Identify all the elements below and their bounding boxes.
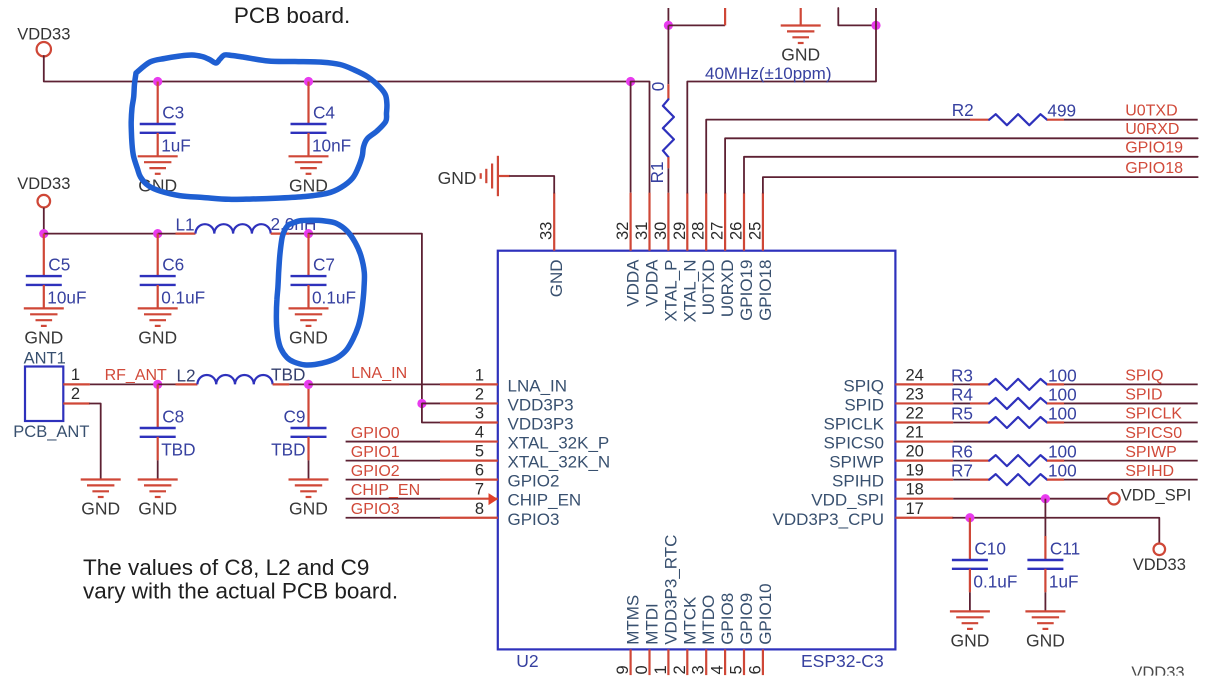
wire crystal top horizontal <box>668 24 725 26</box>
svg-text:6: 6 <box>746 665 764 674</box>
svg-text:25: 25 <box>746 222 764 240</box>
wire net U0RXD from pin 27 <box>725 138 1198 192</box>
wire C7 junction right and down to pin2/pin3 branch (VDD3P3) <box>309 234 422 404</box>
svg-text:TBD: TBD <box>161 440 195 460</box>
svg-text:20: 20 <box>906 443 924 461</box>
pin 1 (LNA_IN) of U2 <box>440 383 498 385</box>
resistor R7 right pin <box>1047 479 1064 481</box>
svg-text:The values of C8, L2 and C9: The values of C8, L2 and C9 <box>83 555 369 580</box>
svg-text:C8: C8 <box>162 407 184 427</box>
wire branch to pin 2 <box>422 402 440 404</box>
wire pin19 to R7 <box>953 479 970 481</box>
svg-text:GND: GND <box>547 260 566 298</box>
pin 18 (VDD_SPI) of U2 <box>895 498 953 500</box>
wire rail2 C6 to L1 <box>158 233 176 235</box>
svg-text:GND: GND <box>81 499 120 519</box>
junction C5 / VDD33 <box>39 229 48 238</box>
svg-text:2: 2 <box>671 665 689 674</box>
resistor R5 body <box>989 417 1047 428</box>
svg-text:R6: R6 <box>951 442 973 462</box>
wire ANT1 pin2 to ground <box>90 404 101 480</box>
wire pin22 to R5 <box>953 422 970 424</box>
svg-text:XTAL_32K_P: XTAL_32K_P <box>508 434 610 453</box>
svg-text:VDDA: VDDA <box>643 259 662 307</box>
svg-text:32: 32 <box>614 222 632 240</box>
junction VDD33 rail to pins 32/31 <box>626 77 635 86</box>
wire pin24 to R3 <box>953 383 970 385</box>
svg-text:0.1uF: 0.1uF <box>312 288 356 308</box>
pin 2 (VDD3P3) of U2 <box>440 402 498 404</box>
svg-text:40MHz(±10ppm): 40MHz(±10ppm) <box>705 64 831 83</box>
svg-text:U0RXD: U0RXD <box>718 260 737 318</box>
wire net U0TXD from pin 28 <box>706 120 970 193</box>
svg-text:33: 33 <box>538 222 556 240</box>
capacitor C6 (C6 0.1uF) <box>157 234 159 277</box>
crop mask bottom (source image cut) <box>0 676 1222 688</box>
ground (sideways) at pin 33 <box>481 156 498 196</box>
svg-text:SPID: SPID <box>1125 387 1162 404</box>
resistor R1 bottom pin <box>667 157 669 168</box>
junction C11 on VDD_SPI <box>1041 494 1050 503</box>
svg-text:U2: U2 <box>516 651 538 671</box>
svg-text:CHIP_EN: CHIP_EN <box>508 491 582 510</box>
pin 33 (GND) of U2 <box>553 193 555 251</box>
junction C3 on VDD33 rail <box>153 77 162 86</box>
svg-text:23: 23 <box>906 385 924 403</box>
svg-text:27: 27 <box>709 222 727 240</box>
svg-text:100: 100 <box>1048 442 1077 462</box>
svg-text:2: 2 <box>475 385 484 403</box>
wire pin 18 to VDD_SPI <box>953 498 1108 500</box>
svg-text:C10: C10 <box>974 539 1006 559</box>
svg-text:R7: R7 <box>951 461 973 481</box>
svg-text:XTAL_P: XTAL_P <box>661 260 680 322</box>
wire rail junction down to pin32 <box>630 82 632 193</box>
svg-text:SPICS0: SPICS0 <box>824 434 884 453</box>
svg-text:VDDA: VDDA <box>624 259 643 307</box>
wire pin20 to R6 <box>953 460 970 462</box>
capacitor C5 (C5 10uF) <box>43 234 45 277</box>
ground GND under C10 <box>950 611 990 629</box>
pin 13 (MTDO) of U2 <box>705 649 707 675</box>
pin 7 (CHIP_EN) of U2 <box>440 498 498 500</box>
inductor L1 body <box>196 224 271 233</box>
wire XTAL_N vertical from top edge <box>875 8 877 25</box>
svg-text:MTDI: MTDI <box>643 603 662 645</box>
inductor L1 left pin <box>176 233 196 235</box>
resistor R3 left pin <box>970 383 989 385</box>
svg-text:R4: R4 <box>951 384 973 404</box>
pin 3 (VDD3P3) of U2 <box>440 421 498 423</box>
svg-text:GPIO18: GPIO18 <box>1125 160 1183 177</box>
wire net SPICS0 (no resistor) <box>953 441 1197 443</box>
svg-text:7: 7 <box>475 481 484 499</box>
resistor R3 right pin <box>1047 383 1064 385</box>
capacitor C11 (C11 1uF) <box>1044 499 1046 536</box>
svg-text:100: 100 <box>1048 461 1077 481</box>
svg-text:C6: C6 <box>162 255 184 275</box>
ground GND under C7 <box>289 308 329 326</box>
junction XTAL_P / R1 <box>664 21 673 30</box>
svg-text:6: 6 <box>475 462 484 480</box>
pin 16 (GPIO10) of U2 <box>762 649 764 675</box>
wire ANT1 pin1 to RF_ANT junction <box>90 383 158 385</box>
svg-text:VDD_SPI: VDD_SPI <box>811 491 884 510</box>
svg-text:PCB board.: PCB board. <box>234 3 350 28</box>
svg-text:R5: R5 <box>951 404 973 424</box>
svg-text:1uF: 1uF <box>1049 572 1079 592</box>
wire R4 to label SPID <box>1064 402 1198 404</box>
ground GND under C8 <box>138 480 178 498</box>
svg-text:C9: C9 <box>284 407 306 427</box>
svg-text:24: 24 <box>906 366 924 384</box>
resistor R3 body <box>989 379 1047 390</box>
svg-text:LNA_IN: LNA_IN <box>508 376 568 395</box>
svg-text:GND: GND <box>289 499 328 519</box>
pin 10 (MTDI) of U2 <box>648 649 650 675</box>
wire net GPIO18 from pin 25 <box>763 177 1198 193</box>
svg-text:9: 9 <box>614 665 632 674</box>
wire VDD33 #2 stub down <box>43 208 45 234</box>
svg-text:0.1uF: 0.1uF <box>973 572 1017 592</box>
svg-text:3: 3 <box>690 665 708 674</box>
svg-text:C11: C11 <box>1050 539 1080 559</box>
ground GND under ANT1 pin2 <box>81 480 121 498</box>
ground GND top crystal <box>781 26 821 44</box>
pin 31 (VDDA) of U2 <box>648 193 650 251</box>
svg-text:VDD33: VDD33 <box>1133 556 1186 574</box>
resistor R5 right pin <box>1047 421 1064 423</box>
pin 11 (VDD3P3_RTC) of U2 <box>667 649 669 675</box>
capacitor C3 (C3 1uF) <box>157 82 159 125</box>
pin 12 (MTCK) of U2 <box>686 649 688 675</box>
ground GND under C3 <box>138 156 178 174</box>
svg-text:4: 4 <box>709 665 727 674</box>
svg-text:0: 0 <box>648 82 668 92</box>
ground GND under C11 <box>1025 611 1065 629</box>
antenna pin 1 <box>63 383 90 385</box>
svg-text:3: 3 <box>475 405 484 423</box>
resistor R6 left pin <box>970 460 989 462</box>
pin 4 (XTAL_32K_P) of U2 <box>440 440 498 442</box>
svg-text:100: 100 <box>1048 365 1077 385</box>
power symbol VDD_SPI <box>1108 493 1120 505</box>
resistor R7 left pin <box>970 479 989 481</box>
pin 9 (MTMS) of U2 <box>629 649 631 675</box>
capacitor C9 (C9 TBD) <box>307 384 309 428</box>
svg-text:26: 26 <box>728 222 746 240</box>
pin 23 (SPID) of U2 <box>895 402 953 404</box>
svg-text:10nF: 10nF <box>312 136 351 156</box>
pin 17 (VDD3P3_CPU) of U2 <box>895 517 953 519</box>
svg-text:GPIO3: GPIO3 <box>351 501 400 518</box>
wire R3 to label SPIQ <box>1064 383 1198 385</box>
svg-text:SPICLK: SPICLK <box>824 415 885 434</box>
svg-text:GPIO3: GPIO3 <box>508 510 560 529</box>
resistor R2 body <box>989 114 1047 125</box>
svg-text:21: 21 <box>906 424 924 442</box>
wire GND to pin 33 <box>510 176 554 193</box>
svg-text:XTAL_N: XTAL_N <box>680 260 699 323</box>
svg-text:VDD3P3_CPU: VDD3P3_CPU <box>773 510 885 529</box>
svg-text:R3: R3 <box>951 365 973 385</box>
pin 15 (GPIO9) of U2 <box>743 649 745 675</box>
svg-text:VDD3P3: VDD3P3 <box>508 395 574 414</box>
junction pin2 VDD3P3 <box>417 399 426 408</box>
svg-text:C4: C4 <box>313 103 335 123</box>
svg-text:29: 29 <box>671 222 689 240</box>
junction C4 on VDD33 rail <box>304 77 313 86</box>
capacitor C4 (C4 10nF) <box>307 82 309 125</box>
ground GND under C5 <box>24 308 64 326</box>
svg-text:499: 499 <box>1047 101 1076 121</box>
svg-text:GPIO8: GPIO8 <box>718 593 737 645</box>
wire net GPIO19 from pin 26 <box>744 157 1198 193</box>
junction C10 on VDD3P3_CPU <box>965 513 974 522</box>
ground GND under C9 <box>289 480 329 498</box>
svg-text:1uF: 1uF <box>161 136 191 156</box>
annotation blob around C3/C4 <box>131 55 387 200</box>
svg-text:GPIO10: GPIO10 <box>756 583 775 644</box>
svg-text:VDD3P3_RTC: VDD3P3_RTC <box>661 535 680 645</box>
svg-text:SPID: SPID <box>844 395 884 414</box>
wire RF_ANT junction to L2 <box>158 383 176 385</box>
svg-text:100: 100 <box>1048 404 1077 424</box>
svg-text:SPICS0: SPICS0 <box>1125 425 1182 442</box>
svg-text:vary with the actual PCB board: vary with the actual PCB board. <box>83 579 398 604</box>
svg-text:8: 8 <box>475 500 484 518</box>
crystal pin stub (cut off) <box>724 8 726 25</box>
svg-text:R1: R1 <box>647 161 667 183</box>
svg-text:0: 0 <box>633 665 651 674</box>
wire branch down and to pin 3 <box>422 404 440 423</box>
svg-text:C3: C3 <box>162 103 184 123</box>
svg-text:MTCK: MTCK <box>680 596 699 645</box>
resistor R6 right pin <box>1047 460 1064 462</box>
svg-text:GND: GND <box>289 327 328 347</box>
wire net GPIO3 to pin 8 <box>346 517 440 519</box>
wire L1 to C7 junction <box>289 233 308 235</box>
wire net GPIO0 to pin 4 <box>346 441 440 443</box>
antenna ANT1 (PCB_ANT) <box>25 367 63 422</box>
pin 29 (XTAL_N) of U2 <box>686 193 688 251</box>
svg-text:GPIO19: GPIO19 <box>1125 140 1183 157</box>
svg-text:GND: GND <box>138 327 177 347</box>
resistor R4 right pin <box>1047 402 1064 404</box>
resistor R4 left pin <box>970 402 989 404</box>
wire from rail junction to pin31 column <box>631 82 650 193</box>
resistor R2 left pin <box>970 119 989 121</box>
pin 14 (GPIO8) of U2 <box>724 649 726 675</box>
svg-text:30: 30 <box>652 222 670 240</box>
svg-text:19: 19 <box>906 462 924 480</box>
wire net GPIO2 to pin 6 <box>346 479 440 481</box>
pin 19 (SPIHD) of U2 <box>895 479 953 481</box>
resistor R1 body <box>663 99 674 157</box>
svg-text:2: 2 <box>71 385 80 403</box>
pin 30 (XTAL_P) of U2 <box>667 193 669 251</box>
resistor R1 top pin <box>667 84 669 99</box>
wire R5 to label SPICLK <box>1064 422 1198 424</box>
svg-text:VDD33: VDD33 <box>17 26 70 44</box>
svg-text:VDD3P3: VDD3P3 <box>508 415 574 434</box>
resistor R2 right pin <box>1047 119 1064 121</box>
svg-text:GPIO1: GPIO1 <box>351 444 400 461</box>
svg-text:MTDO: MTDO <box>699 595 718 645</box>
svg-text:L2: L2 <box>177 366 196 386</box>
CHIP_EN input arrow <box>489 493 498 505</box>
svg-text:U0TXD: U0TXD <box>1125 103 1177 120</box>
capacitor C8 (C8 TBD) <box>157 384 159 428</box>
svg-text:ESP32-C3: ESP32-C3 <box>801 651 884 671</box>
svg-text:22: 22 <box>906 405 924 423</box>
svg-text:TBD: TBD <box>271 365 305 385</box>
svg-text:SPIHD: SPIHD <box>832 472 884 491</box>
wire R1 to pin 30 <box>667 168 669 192</box>
junction C6 <box>153 229 162 238</box>
svg-text:VDD_SPI: VDD_SPI <box>1121 487 1192 505</box>
wire pin23 to R4 <box>953 402 970 404</box>
svg-text:R2: R2 <box>952 100 974 120</box>
wire crystal right elbow from top <box>838 8 876 25</box>
capacitor C10 (C10 0.1uF) <box>969 518 971 560</box>
svg-text:1: 1 <box>652 665 670 674</box>
svg-text:GPIO9: GPIO9 <box>737 593 756 645</box>
pin 22 (SPICLK) of U2 <box>895 421 953 423</box>
svg-text:XTAL_32K_N: XTAL_32K_N <box>508 453 611 472</box>
junction LNA_IN / C9 <box>304 380 313 389</box>
svg-text:SPIWP: SPIWP <box>829 453 884 472</box>
svg-text:10uF: 10uF <box>47 288 86 308</box>
wire crystal XTAL_P column from top <box>667 8 669 25</box>
svg-text:GND: GND <box>24 327 63 347</box>
svg-text:C7: C7 <box>313 255 335 275</box>
pin 5 (XTAL_32K_N) of U2 <box>440 460 498 462</box>
svg-text:GPIO19: GPIO19 <box>737 260 756 321</box>
svg-text:0.1uF: 0.1uF <box>161 288 205 308</box>
svg-text:CHIP_EN: CHIP_EN <box>351 482 420 499</box>
pin 28 (U0TXD) of U2 <box>705 193 707 251</box>
wire R6 to label SPIWP <box>1064 460 1198 462</box>
pin 32 (VDDA) of U2 <box>629 193 631 251</box>
svg-text:GND: GND <box>781 45 820 65</box>
svg-text:ANT1: ANT1 <box>24 350 66 368</box>
annotation blob around C7 <box>276 220 364 365</box>
svg-text:LNA_IN: LNA_IN <box>351 365 407 382</box>
inductor L2 left pin <box>176 383 198 385</box>
svg-text:GND: GND <box>1026 630 1065 650</box>
wire L2 to LNA junction <box>289 383 308 385</box>
ground GND under C6 <box>138 308 178 326</box>
svg-text:VDD33: VDD33 <box>17 175 70 193</box>
svg-text:1: 1 <box>71 366 80 384</box>
svg-text:100: 100 <box>1048 384 1077 404</box>
svg-text:GPIO0: GPIO0 <box>351 425 400 442</box>
svg-text:C5: C5 <box>48 255 70 275</box>
pin 6 (GPIO2) of U2 <box>440 479 498 481</box>
resistor R7 body <box>989 474 1047 485</box>
svg-text:SPIWP: SPIWP <box>1125 444 1177 461</box>
svg-text:U0TXD: U0TXD <box>699 260 718 316</box>
wire VDD33 stub down to rail <box>44 56 631 82</box>
pin 25 (GPIO18) of U2 <box>762 193 764 251</box>
svg-text:GPIO2: GPIO2 <box>508 472 560 491</box>
junction RF_ANT / C8 <box>153 380 162 389</box>
wire rail2 to C6 <box>44 233 158 235</box>
inductor L2 right pin <box>273 383 290 385</box>
wire pin 17 to VDD33 (right) <box>953 518 1159 544</box>
svg-text:PCB_ANT: PCB_ANT <box>13 423 89 441</box>
svg-text:U0RXD: U0RXD <box>1125 121 1179 138</box>
svg-text:28: 28 <box>690 222 708 240</box>
wire XTAL_N down to 40MHz row <box>687 25 876 192</box>
svg-text:SPICLK: SPICLK <box>1125 406 1182 423</box>
resistor R4 body <box>989 398 1047 409</box>
svg-text:MTMS: MTMS <box>624 595 643 645</box>
inductor L1 right pin <box>271 233 290 235</box>
capacitor C7 (C7 0.1uF) <box>307 234 309 277</box>
svg-text:1: 1 <box>475 366 484 384</box>
wire R2 to U0TXD label <box>1064 119 1198 121</box>
pin 26 (GPIO19) of U2 <box>743 193 745 251</box>
pin 21 (SPICS0) of U2 <box>895 440 953 442</box>
svg-text:SPIQ: SPIQ <box>843 376 884 395</box>
svg-text:5: 5 <box>728 665 746 674</box>
svg-text:GPIO2: GPIO2 <box>351 463 400 480</box>
wire R1 junction down to R1 <box>667 25 669 84</box>
svg-text:SPIHD: SPIHD <box>1125 463 1174 480</box>
svg-text:GND: GND <box>138 499 177 519</box>
pin 24 (SPIQ) of U2 <box>895 383 953 385</box>
IC U2 ESP32-C3 chip body <box>498 251 896 650</box>
pin 27 (U0RXD) of U2 <box>724 193 726 251</box>
svg-text:TBD: TBD <box>271 440 305 460</box>
wire LNA_IN to chip pin 1 <box>309 383 441 385</box>
pin 20 (SPIWP) of U2 <box>895 460 953 462</box>
wire R7 to label SPIHD <box>1064 479 1198 481</box>
power symbol VDD33 (right) <box>1154 544 1166 556</box>
svg-text:4: 4 <box>475 424 484 442</box>
svg-text:SPIQ: SPIQ <box>1125 368 1163 385</box>
svg-text:17: 17 <box>906 500 924 518</box>
svg-text:GND: GND <box>950 630 989 650</box>
wire net CHIP_EN to pin 7 <box>346 498 440 500</box>
pin 8 (GPIO3) of U2 <box>440 517 498 519</box>
inductor L2 body <box>197 375 272 384</box>
svg-text:GND: GND <box>438 168 477 188</box>
svg-text:GPIO18: GPIO18 <box>756 260 775 321</box>
resistor R6 body <box>989 455 1047 466</box>
ground sideways pin stub <box>498 175 510 177</box>
svg-text:5: 5 <box>475 443 484 461</box>
ground stub at crystal (top) <box>800 8 802 26</box>
ground GND under C4 <box>289 156 329 174</box>
junction XTAL_N top <box>871 21 880 30</box>
wire net GPIO1 to pin 5 <box>346 460 440 462</box>
svg-text:18: 18 <box>906 481 924 499</box>
antenna pin 2 <box>63 402 90 404</box>
resistor R5 left pin <box>970 421 989 423</box>
svg-text:31: 31 <box>633 222 651 240</box>
svg-text:L1: L1 <box>176 215 195 235</box>
junction C7 / VDD3P3 branch <box>304 229 313 238</box>
